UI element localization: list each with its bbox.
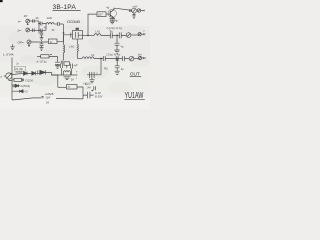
ground G6 (115, 71, 120, 74)
wire pot bottom to vertical (9, 79, 12, 80)
relay RL1 armature box (64, 62, 70, 66)
supply wire bottom right (56, 98, 83, 100)
resistor R2 (box) (12, 79, 14, 81)
svg-text:Uℓ: Uℓ (46, 101, 49, 105)
diode D3 (38, 70, 52, 74)
capacitor C16 small (94, 86, 96, 90)
svg-text:Γг: Γг (68, 85, 70, 89)
capacitor C10 series (103, 56, 116, 61)
trimmer CT4 small (138, 33, 141, 36)
equals marks (41, 97, 43, 98)
transistor Q1 (boxed) (73, 31, 83, 40)
capacitor C3 (58, 22, 64, 26)
electrolytic C17 (83, 92, 94, 99)
svg-text:14H: 14H (87, 87, 92, 90)
svg-text:4F: 4F (52, 28, 55, 32)
svg-text:›(: ›( (0, 74, 2, 78)
resistor R1 (box) (37, 55, 41, 57)
wire down from caption row to pot (11, 58, 13, 74)
wire node C up to driver box (88, 14, 97, 35)
capacitor C19 (choke bottom) (61, 61, 63, 64)
plus mark (91, 90, 93, 92)
ground G10 (64, 77, 71, 80)
svg-text:(,AC: (,AC (69, 44, 74, 48)
ground G2 (left) (10, 44, 15, 49)
box B1 (input attenuator) (49, 39, 58, 44)
capacitor CJ2 (33, 28, 35, 32)
inductor L5 (output tank) (82, 57, 103, 59)
relay contact C21 left (60, 64, 62, 76)
wire to base node (63, 24, 65, 35)
wire J3 to B1 (31, 41, 49, 43)
trimmer CT3 right of meter (137, 9, 140, 12)
wire joining rails (44, 24, 46, 31)
box around P1 (15, 66, 26, 71)
emitter choke L3 (77, 44, 78, 59)
wire Q1 collector out (83, 34, 93, 36)
wire Q1 emitter down (76, 39, 78, 44)
scanner mark top-left corner (0, 0, 3, 2)
svg-text:2x(N4ʹ: 2x(N4ʹ (16, 71, 24, 74)
svg-text:4μ: 4μ (121, 67, 124, 71)
feedthrough capacitors C14 (87, 72, 101, 78)
svg-text:1AD: 1AD (47, 16, 52, 20)
wire node E down (100, 59, 102, 75)
svg-text:n( -2(T)(μ: n( -2(T)(μ (36, 60, 47, 63)
wire C14 down (91, 78, 93, 80)
wire P1 to diodes (12, 73, 24, 74)
ground G5 (133, 17, 135, 18)
wire L1 to cap (54, 23, 58, 25)
wire Q2 emitter down (111, 17, 113, 20)
diode D5 (zener) (15, 84, 19, 87)
inductor L4 (93, 34, 111, 36)
wire CT1 to output node (131, 34, 138, 36)
capacitor C1 (upper input) (39, 22, 44, 26)
wire input bus vertical (38, 21, 40, 34)
svg-text:2x(5V(4(: 2x(5V(4( (21, 85, 31, 88)
capacitor C5 series (110, 32, 119, 38)
svg-text:OUT: OUT (130, 72, 140, 77)
potentiometer P1 (4, 75, 6, 77)
svg-text:(=-: (=- (18, 20, 22, 24)
ground G8 (55, 65, 60, 68)
OUT underline (130, 76, 142, 78)
diode D1 (24, 72, 32, 76)
relay ground rail (52, 74, 78, 76)
ground under J3 (28, 44, 30, 47)
diode D2 (32, 71, 40, 75)
svg-text:4F,: 4F, (36, 16, 40, 20)
shunt capacitor C7 (115, 36, 120, 50)
ground G11 (40, 48, 44, 51)
wire box to down corner (77, 87, 83, 99)
relay contact C22 right (70, 64, 72, 76)
signature underline (124, 98, 144, 100)
box Da2 (relay contact box) (67, 85, 78, 89)
ground G3 (114, 50, 119, 53)
tick below J1 (27, 23, 29, 25)
svg-text:1. (Γ(4A: 1. (Γ(4A (3, 53, 14, 57)
supply wire bottom (12, 98, 41, 100)
diode D4 row C (12, 90, 25, 93)
capacitor C24 row B (12, 84, 14, 87)
svg-text:(0-10ʹ: (0-10ʹ (95, 92, 102, 95)
capacitor C11 series (116, 56, 122, 61)
wire emitter node to output tank (77, 58, 82, 60)
capacitor C2 (lower input) (41, 29, 47, 33)
junction node C (87, 35, 88, 36)
ground G4 (110, 21, 115, 24)
capacitor CJ1 (33, 19, 35, 23)
trimmer capacitor CT2 (129, 56, 134, 61)
svg-text:4μ: 4μ (121, 45, 124, 49)
shunt capacitor C4 to ground (40, 30, 44, 37)
wire relay rail down (57, 75, 59, 87)
title underline (53, 10, 81, 12)
svg-text:2-(p/4p( 4p 4p(: 2-(p/4p( 4p 4p( (107, 27, 123, 30)
svg-text:4μʹ: 4μʹ (115, 19, 119, 23)
capacitor C25 under OP wire (40, 42, 44, 48)
shunt capacitor C13 (115, 59, 120, 71)
svg-text:GG3dB: GG3dB (67, 19, 80, 24)
paper background (0, 0, 150, 109)
svg-text:L07: L07 (98, 13, 103, 17)
relay coil (63, 65, 70, 75)
junction dots (39, 23, 40, 24)
transistor Q2 (108, 9, 116, 17)
svg-text:(1Aʹ: (1Aʹ (46, 96, 51, 100)
svg-text:’RC: ’RC (104, 67, 108, 71)
svg-text:L41: L41 (96, 30, 101, 34)
capacitor C23 (22, 79, 24, 82)
svg-text:3B-1PA: 3B-1PA (53, 4, 77, 11)
trimmer CT5 small (138, 56, 141, 59)
wire CT2 to out arrow (134, 58, 139, 60)
junction node E (100, 58, 101, 59)
bypass capacitor C15 (55, 56, 60, 65)
wire Q2 collector up to rail (114, 8, 132, 10)
inductor L1 (46, 23, 54, 25)
svg-text:6mʹ: 6mʹ (138, 53, 142, 56)
wire left supply vertical (11, 73, 13, 100)
ground G1 (40, 38, 44, 41)
wire to Da2 box (58, 86, 67, 88)
meter M1 (132, 8, 137, 13)
svg-text:1=-: 1=- (17, 29, 21, 33)
svg-text:4(: 4( (44, 26, 46, 29)
wire diode row to relay (52, 72, 59, 75)
svg-text:(0-20Vʹ: (0-20Vʹ (95, 96, 104, 99)
wire J1 to input (30, 20, 39, 22)
capacitor C12 series (123, 56, 130, 61)
svg-text:1Kʹ: 1Kʹ (24, 14, 29, 18)
svg-text:4pʹ: 4pʹ (106, 5, 110, 9)
junction node D (116, 35, 117, 36)
box L07 (driver filter) (97, 12, 106, 17)
junction dot node B (63, 32, 64, 33)
capacitor C8 at Q2 emitter (110, 19, 115, 22)
RF choke L2 vertical (64, 35, 65, 61)
capacitor C6 series (119, 32, 126, 38)
wire B1 to bias node (57, 35, 64, 42)
capacitor C20 before meter (130, 9, 131, 12)
trimmer capacitor CT1 (126, 33, 131, 38)
ground G7 (89, 80, 94, 83)
svg-text:(7()2V(: (7()2V( (25, 80, 33, 83)
wire J2 to input (30, 29, 41, 31)
capacitor C9 below meter (132, 13, 135, 16)
svg-text:OP=: OP= (18, 41, 24, 45)
wire box to Q2 base (106, 13, 110, 15)
svg-text:Dℓ: Dℓ (71, 77, 74, 81)
